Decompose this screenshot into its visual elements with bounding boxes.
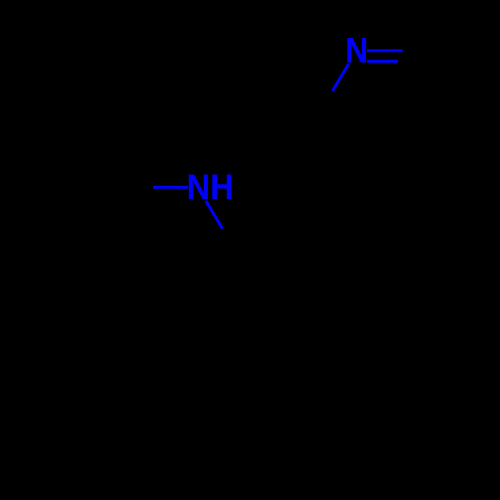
bond C-N2 left half segment: [153, 186, 188, 189]
bond N1=C2 double bond inner line: [367, 60, 398, 63]
bond N1=C2 double bond outer line: [367, 49, 403, 52]
bond C6-N1 half segment: [333, 64, 349, 91]
bond N2-C right half segment: [206, 201, 223, 229]
svg-text:NH: NH: [187, 168, 234, 207]
